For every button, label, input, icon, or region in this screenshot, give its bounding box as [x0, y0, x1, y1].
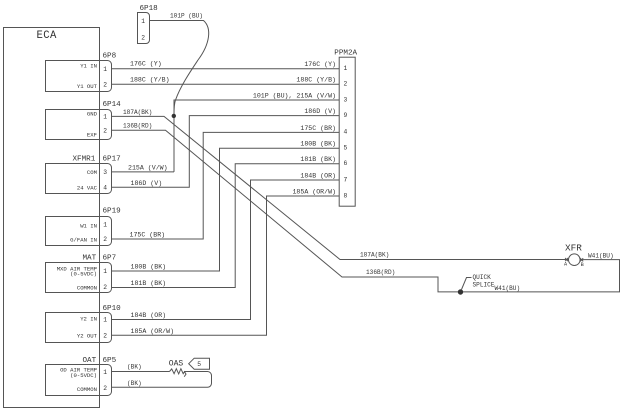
svg-text:G/FAN IN: G/FAN IN — [70, 237, 97, 244]
svg-text:2: 2 — [103, 284, 107, 291]
svg-text:181B (BK): 181B (BK) — [131, 280, 167, 287]
svg-text:24 VAC: 24 VAC — [77, 185, 98, 192]
svg-text:Y2 IN: Y2 IN — [80, 315, 97, 322]
svg-text:3: 3 — [103, 169, 107, 176]
svg-text:3: 3 — [344, 96, 348, 103]
svg-text:175C (BR): 175C (BR) — [130, 231, 166, 238]
svg-text:OAT: OAT — [83, 357, 97, 365]
svg-text:QUICK: QUICK — [473, 274, 492, 281]
svg-text:COM: COM — [87, 169, 97, 176]
svg-text:136B(RD): 136B(RD) — [123, 123, 152, 130]
svg-text:185A (OR/W): 185A (OR/W) — [131, 328, 175, 335]
svg-text:2: 2 — [103, 81, 107, 88]
svg-text:184B (OR): 184B (OR) — [131, 312, 167, 319]
svg-text:2: 2 — [103, 236, 107, 243]
svg-text:1: 1 — [141, 18, 145, 25]
svg-text:2: 2 — [103, 127, 107, 134]
svg-text:SPLICE: SPLICE — [473, 282, 495, 289]
svg-text:215A (V/W): 215A (V/W) — [128, 164, 168, 171]
svg-text:6P19: 6P19 — [103, 208, 122, 216]
svg-text:PPM2A: PPM2A — [334, 50, 357, 58]
svg-text:MAT: MAT — [83, 255, 97, 263]
svg-text:W41(BU): W41(BU) — [588, 252, 614, 259]
svg-text:W1 IN: W1 IN — [80, 222, 97, 229]
svg-text:181B (BK): 181B (BK) — [300, 156, 336, 163]
svg-text:Y2 OUT: Y2 OUT — [77, 332, 98, 339]
svg-text:1: 1 — [103, 317, 107, 324]
svg-text:OAS: OAS — [169, 360, 184, 369]
svg-text:6P18: 6P18 — [140, 5, 159, 13]
svg-text:1: 1 — [103, 369, 107, 376]
svg-text:180B (BK): 180B (BK) — [131, 263, 167, 270]
svg-text:187A(BK): 187A(BK) — [123, 109, 152, 116]
svg-text:6P14: 6P14 — [103, 101, 122, 109]
svg-text:2: 2 — [141, 34, 145, 41]
svg-text:188C (Y/B): 188C (Y/B) — [296, 77, 336, 84]
svg-text:XFR: XFR — [565, 243, 582, 254]
svg-text:184B (OR): 184B (OR) — [300, 172, 336, 179]
svg-text:6P7: 6P7 — [103, 255, 117, 263]
svg-text:B: B — [581, 262, 584, 268]
svg-text:GND: GND — [87, 111, 98, 118]
svg-text:6P10: 6P10 — [103, 305, 122, 313]
svg-text:(0-5VDC): (0-5VDC) — [70, 372, 97, 379]
svg-text:A: A — [564, 261, 568, 267]
svg-text:ECA: ECA — [37, 30, 58, 42]
svg-text:8: 8 — [344, 192, 348, 199]
svg-text:9: 9 — [344, 112, 348, 119]
svg-text:1: 1 — [103, 222, 107, 229]
svg-text:COMMON: COMMON — [77, 284, 97, 291]
svg-text:5: 5 — [197, 361, 201, 368]
svg-text:188C (Y/B): 188C (Y/B) — [130, 76, 170, 83]
svg-text:2: 2 — [103, 332, 107, 339]
svg-text:6P8: 6P8 — [103, 53, 117, 61]
svg-text:2: 2 — [103, 385, 107, 392]
svg-text:186D (V): 186D (V) — [304, 108, 336, 115]
svg-text:6: 6 — [344, 160, 348, 167]
svg-text:Y1 OUT: Y1 OUT — [77, 83, 98, 90]
svg-text:EXF: EXF — [87, 131, 97, 138]
svg-text:176C (Y): 176C (Y) — [130, 60, 162, 67]
svg-text:136B(RD): 136B(RD) — [366, 269, 395, 276]
svg-text:185A (OR/W): 185A (OR/W) — [292, 188, 336, 195]
svg-text:4: 4 — [344, 129, 348, 136]
svg-text:W41(BU): W41(BU) — [495, 285, 521, 292]
svg-text:1: 1 — [103, 268, 107, 275]
svg-text:101P (BU), 215A (V/W): 101P (BU), 215A (V/W) — [253, 92, 336, 99]
svg-text:176C (Y): 176C (Y) — [304, 61, 336, 68]
svg-text:2: 2 — [344, 81, 348, 88]
svg-text:6P17: 6P17 — [103, 156, 121, 164]
svg-text:(BK): (BK) — [127, 380, 142, 387]
svg-text:1: 1 — [344, 65, 348, 72]
svg-text:5: 5 — [344, 145, 348, 152]
svg-text:XFMR1: XFMR1 — [73, 156, 96, 164]
svg-text:1: 1 — [103, 114, 107, 121]
svg-text:(BK): (BK) — [127, 364, 142, 371]
svg-text:(0-5VDC): (0-5VDC) — [70, 271, 97, 278]
svg-text:187A(BK): 187A(BK) — [360, 252, 389, 259]
svg-text:101P (BU): 101P (BU) — [170, 12, 203, 19]
svg-text:175C (BR): 175C (BR) — [300, 125, 336, 132]
svg-text:COMMON: COMMON — [77, 386, 97, 393]
svg-text:180B (BK): 180B (BK) — [300, 141, 336, 148]
svg-text:6P5: 6P5 — [103, 357, 117, 365]
svg-text:186D (V): 186D (V) — [131, 180, 163, 187]
svg-text:7: 7 — [344, 176, 348, 183]
svg-text:Y1 IN: Y1 IN — [80, 62, 97, 69]
svg-text:4: 4 — [103, 184, 107, 191]
svg-text:1: 1 — [103, 66, 107, 73]
